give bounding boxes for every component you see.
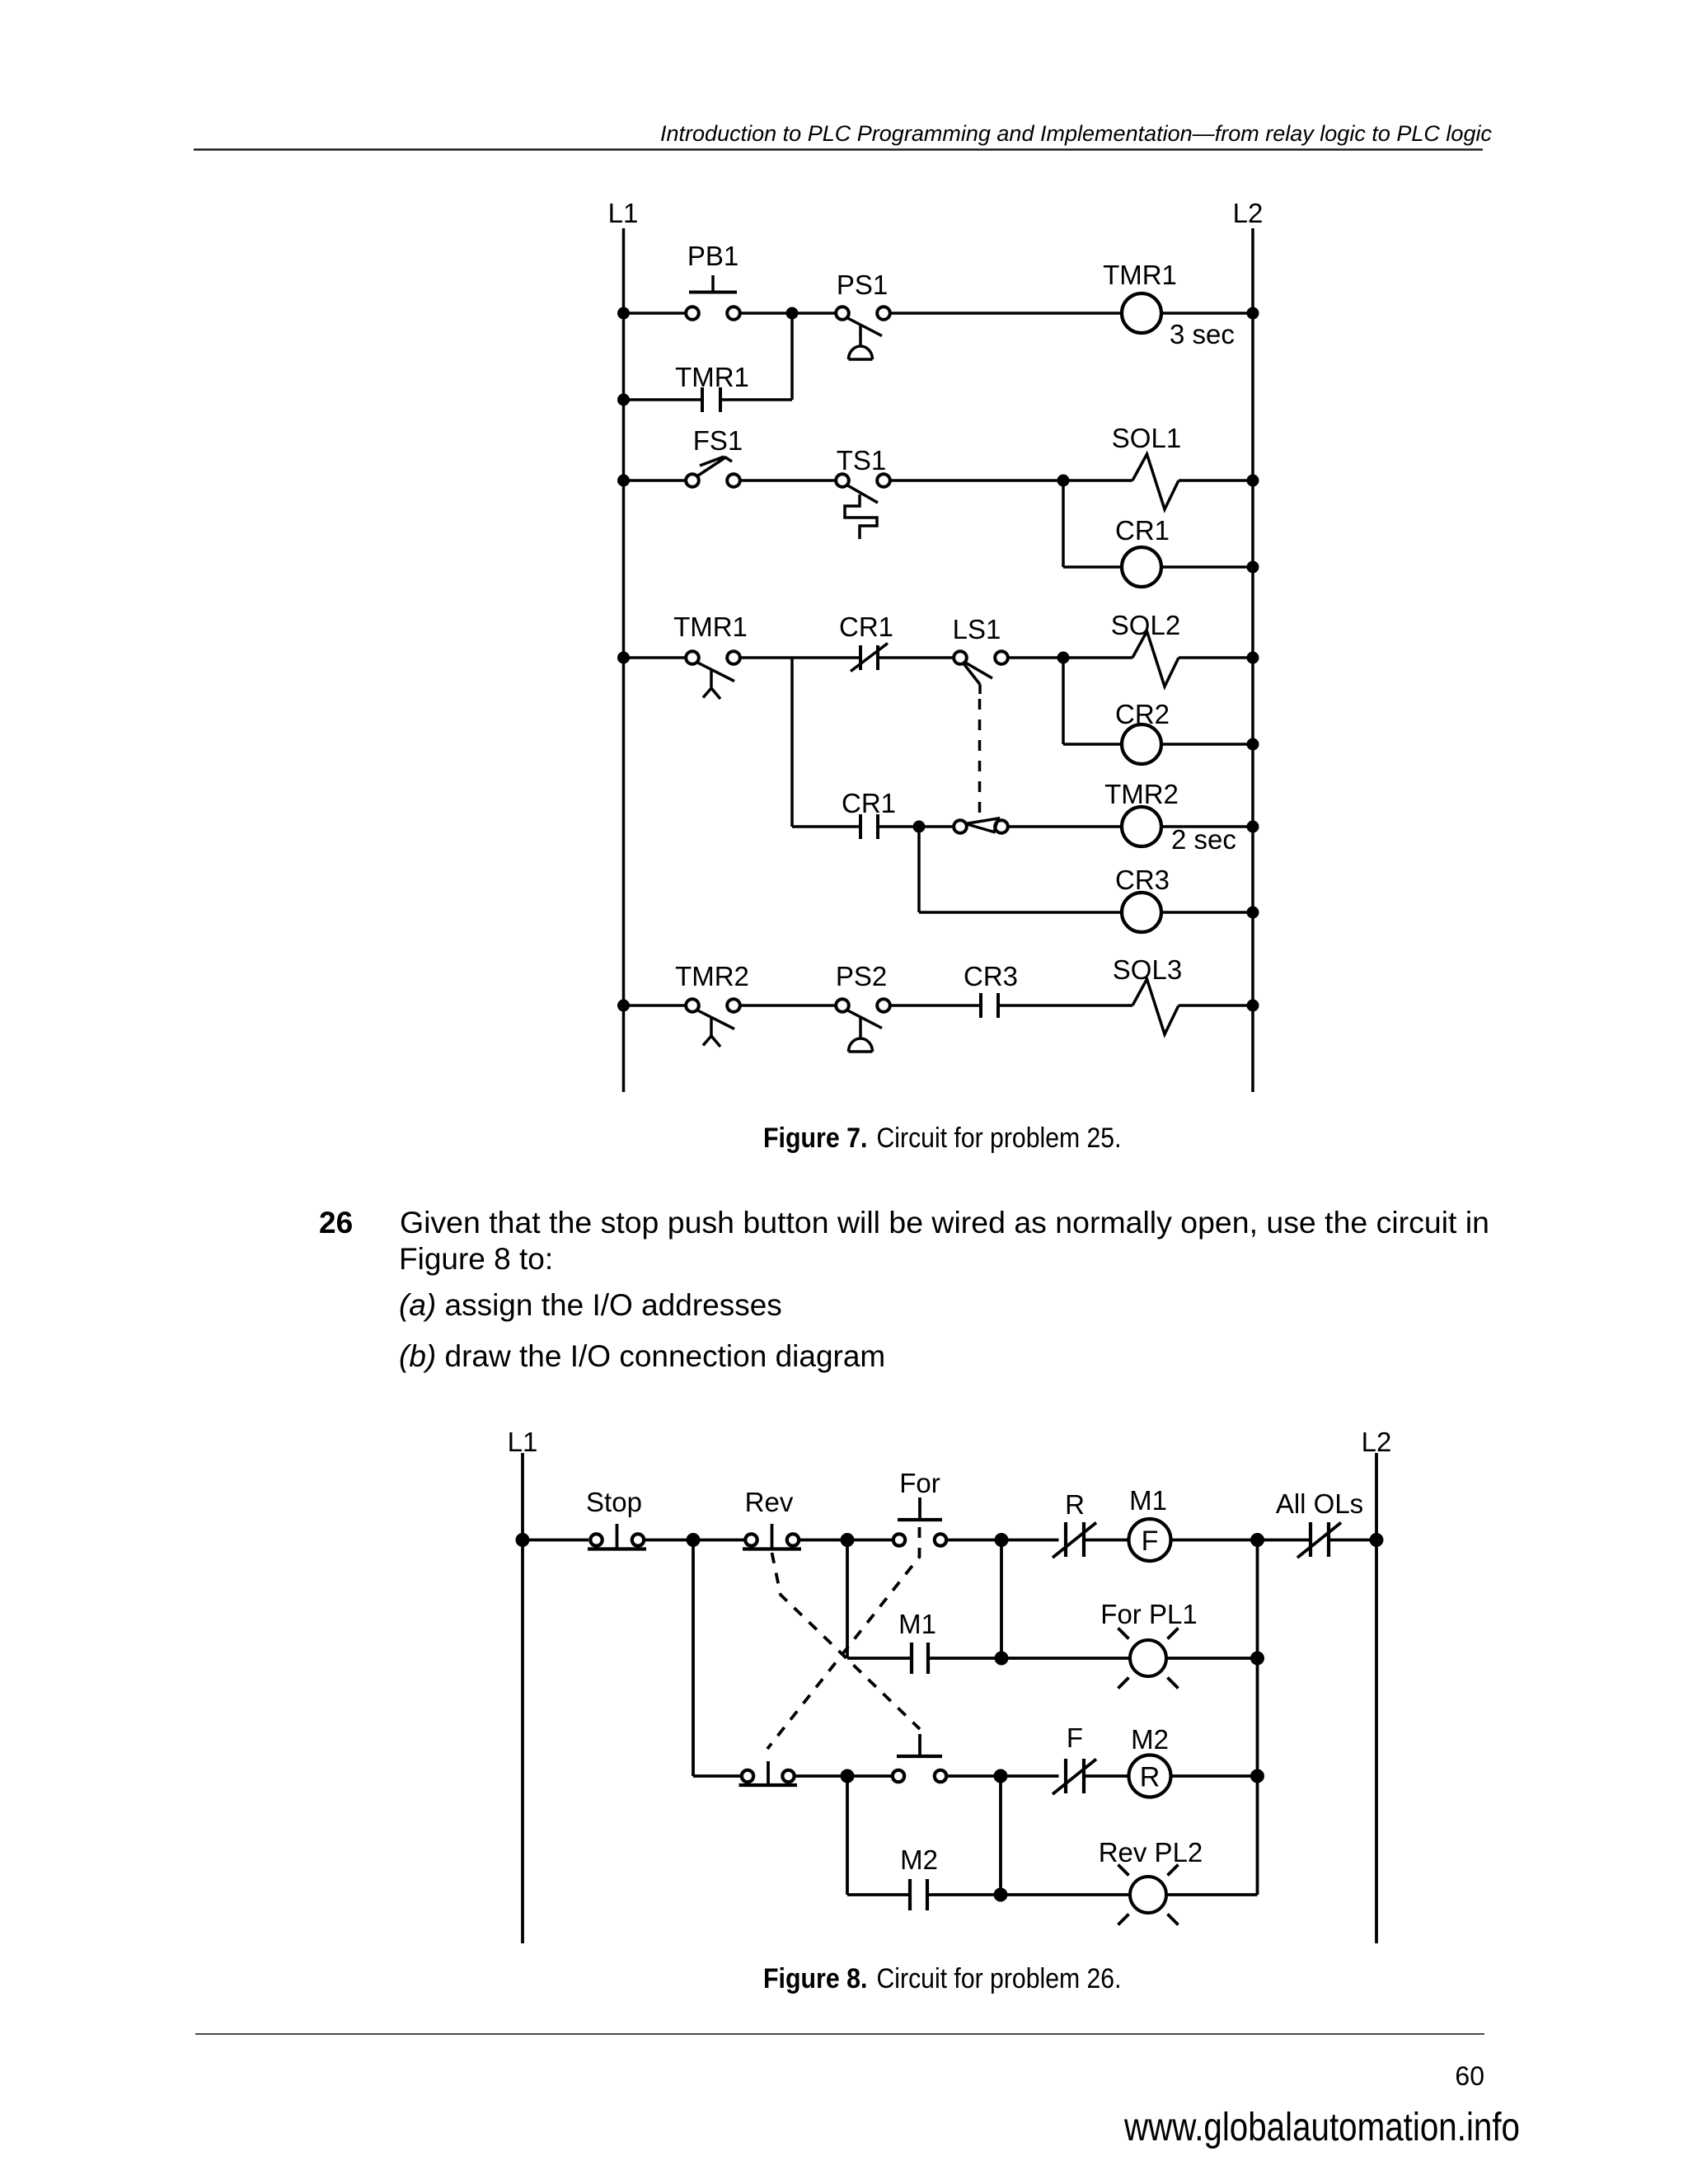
svg-text:PS2: PS2 — [836, 961, 887, 991]
junction rung5-L2 — [1247, 1000, 1259, 1012]
svg-text:60: 60 — [1455, 2061, 1484, 2091]
wire rung4 right — [1009, 825, 1123, 828]
svg-text:L2: L2 — [1362, 1427, 1392, 1457]
contact TMR1 NO — [675, 362, 749, 412]
svg-text:F: F — [1142, 1526, 1159, 1557]
wire CR1 branch vertical — [1062, 480, 1065, 567]
junction rung4-branch — [913, 821, 926, 833]
wire rung3 branch vertical — [790, 658, 794, 827]
wire rung2 left — [624, 479, 687, 482]
flow switch FS1 — [686, 425, 743, 487]
coil TMR2 — [1104, 779, 1236, 855]
wire rung4 left — [792, 825, 860, 828]
junction rung1-A — [687, 1533, 701, 1547]
svg-text:(b) draw the I/O connection di: (b) draw the I/O connection diagram — [399, 1339, 885, 1373]
junction rung5-L1 — [617, 1000, 630, 1012]
wire Rev mechanical link dashed — [772, 1553, 921, 1729]
svg-text:Rev: Rev — [745, 1487, 794, 1517]
junction rung1-L1 — [516, 1533, 530, 1547]
junction rung4-L2 — [1247, 821, 1259, 833]
svg-text:Circuit for problem 26.: Circuit for problem 26. — [877, 1963, 1122, 1994]
solenoid SOL3 — [1113, 954, 1182, 1034]
junction rung3-B — [841, 1769, 855, 1783]
junction rung1b-L1 — [617, 394, 630, 406]
contact M2 NO seal-in — [900, 1844, 938, 1910]
junction rung2-D — [1250, 1652, 1264, 1666]
wire CR3 branch vertical — [917, 827, 921, 912]
wire rung1 mid — [741, 312, 836, 315]
wire CR3 rung to L2 — [1161, 911, 1253, 914]
node L2 rail — [1375, 1453, 1378, 1943]
contact R NC interlock — [1053, 1489, 1096, 1558]
wire rung3 left — [624, 656, 686, 659]
wire rung5 mid2 — [891, 1004, 982, 1007]
junction rung1-C — [995, 1533, 1009, 1547]
solenoid SOL1 — [1112, 423, 1181, 509]
wire rung4 left — [847, 1893, 910, 1896]
wire CR1 rung left — [1063, 565, 1122, 569]
svg-text:M2: M2 — [900, 1844, 938, 1875]
contact All OLs NC — [1276, 1488, 1363, 1558]
svg-text:L2: L2 — [1233, 198, 1264, 228]
svg-text:Figure 7.: Figure 7. — [763, 1122, 868, 1154]
wire branch C2 vertical — [999, 1776, 1002, 1895]
wire seal branch vertical — [790, 313, 794, 400]
footer rule — [195, 2033, 1484, 2035]
wire rung5 right — [998, 1004, 1132, 1007]
junction rung1-B — [841, 1533, 855, 1547]
coil M1 forward — [1129, 1485, 1171, 1561]
junction rung1-L2 — [1370, 1533, 1384, 1547]
svg-text:L1: L1 — [508, 1427, 538, 1457]
svg-text:Figure 8.: Figure 8. — [763, 1963, 868, 1994]
wire rung1 right — [891, 312, 1123, 315]
junction rung2-L2 — [1247, 475, 1259, 487]
wire rung1 a — [645, 1539, 744, 1542]
wire rung2 right — [891, 479, 1133, 482]
pressure switch PS2 — [836, 961, 890, 1052]
wire rung4 mid — [927, 1893, 1130, 1896]
svg-text:2 sec: 2 sec — [1171, 824, 1236, 855]
wire CR2 rung to L2 — [1161, 743, 1253, 746]
svg-text:LS1: LS1 — [953, 614, 1001, 644]
wire rung2 left — [847, 1657, 912, 1660]
coil CR2 — [1115, 699, 1170, 764]
svg-text:TMR2: TMR2 — [675, 961, 749, 991]
wire CR3 rung left — [919, 911, 1122, 914]
svg-text:M2: M2 — [1131, 1724, 1169, 1755]
wire rung4 to L2 — [1161, 825, 1253, 828]
timed contact TMR2 NOTC — [675, 961, 749, 1047]
svg-text:TMR1: TMR1 — [673, 612, 748, 642]
svg-text:www.globalautomation.info: www.globalautomation.info — [1123, 2106, 1520, 2149]
svg-text:TMR1: TMR1 — [675, 362, 749, 392]
svg-text:For PL1: For PL1 — [1100, 1599, 1197, 1629]
wire branch D vertical — [1256, 1540, 1259, 1896]
wire rung3 c — [1084, 1774, 1129, 1778]
timed contact TMR1 NOTC — [673, 612, 748, 699]
svg-text:M1: M1 — [898, 1609, 936, 1639]
svg-text:L1: L1 — [608, 198, 639, 228]
wire For mechanical link dashed — [767, 1527, 920, 1749]
wire rung1b left — [624, 398, 703, 401]
svg-text:Rev PL2: Rev PL2 — [1099, 1837, 1203, 1868]
svg-text:3 sec: 3 sec — [1170, 319, 1235, 349]
junction rung1-L2 — [1247, 307, 1259, 320]
svg-text:R: R — [1140, 1762, 1160, 1793]
pilot light For PL1 — [1100, 1599, 1197, 1689]
wire rung3 b — [948, 1774, 1059, 1778]
junction rung3-C — [994, 1769, 1008, 1783]
contact M1 NO seal-in — [898, 1609, 936, 1674]
pilot light Rev PL2 — [1099, 1837, 1203, 1925]
svg-text:Circuit for problem 25.: Circuit for problem 25. — [877, 1122, 1122, 1154]
svg-text:TMR1: TMR1 — [1103, 260, 1177, 290]
coil CR3 — [1115, 865, 1170, 932]
pushbutton For second pole — [893, 1734, 946, 1782]
node L1 rail — [521, 1453, 524, 1943]
svg-text:PS1: PS1 — [837, 269, 888, 300]
pushbutton Stop NC — [586, 1487, 646, 1549]
junction rung3-D — [1250, 1769, 1264, 1783]
wire rung3 left — [693, 1774, 740, 1778]
pushbutton Rev NC — [743, 1487, 801, 1549]
junction rung4-C2 — [994, 1888, 1008, 1902]
wire rung1 d — [1084, 1539, 1129, 1542]
wire branch C vertical — [1000, 1540, 1003, 1659]
junction rung3-L1 — [617, 652, 630, 664]
svg-text:26: 26 — [319, 1206, 353, 1240]
svg-text:CR1: CR1 — [842, 788, 896, 818]
svg-text:SOL1: SOL1 — [1112, 423, 1181, 453]
svg-text:R: R — [1065, 1489, 1085, 1520]
wire rung5 to L2 — [1179, 1004, 1253, 1007]
svg-text:CR3: CR3 — [1115, 865, 1170, 895]
svg-text:CR1: CR1 — [1115, 515, 1170, 546]
svg-text:F: F — [1067, 1722, 1083, 1753]
wire rung2 mid — [741, 479, 836, 482]
wire rung3 mid — [741, 656, 861, 659]
svg-text:(a) assign the I/O addresses: (a) assign the I/O addresses — [399, 1288, 782, 1322]
solenoid SOL2 — [1111, 610, 1180, 687]
junction rung1-L1 — [617, 307, 630, 320]
svg-text:M1: M1 — [1129, 1485, 1167, 1516]
junction rung1-branch — [786, 307, 799, 320]
svg-text:PB1: PB1 — [687, 241, 738, 271]
junction rung2-C — [995, 1652, 1009, 1666]
wire rung1 b — [800, 1539, 893, 1542]
svg-text:CR3: CR3 — [964, 961, 1018, 991]
wire rung3 to D — [1171, 1774, 1258, 1778]
wire rung2 mid — [928, 1657, 1130, 1660]
contact CR1 NC — [839, 612, 893, 672]
svg-text:Stop: Stop — [586, 1487, 642, 1517]
wire branch B2 vertical — [846, 1776, 849, 1895]
wire branch B vertical — [846, 1540, 849, 1659]
wire rung1 to L2 — [1329, 1539, 1376, 1542]
svg-text:Figure 8 to:: Figure 8 to: — [399, 1242, 553, 1276]
wire rung1b right — [720, 398, 792, 401]
coil M2 reverse — [1129, 1724, 1171, 1797]
pushbutton For NO — [893, 1468, 946, 1546]
junction rung1-D — [1250, 1533, 1264, 1547]
wire rung4 to D — [1166, 1893, 1258, 1896]
temperature switch TS1 — [836, 445, 890, 539]
wire rung3 mid2 — [878, 656, 954, 659]
svg-text:TMR2: TMR2 — [1104, 779, 1179, 809]
wire rung5 left — [624, 1004, 686, 1007]
wire CR2 rung left — [1063, 743, 1122, 746]
wire LS1 link dashed — [978, 699, 982, 816]
svg-text:All OLs: All OLs — [1276, 1488, 1363, 1519]
junction rung3-L2 — [1247, 652, 1259, 664]
wire rung4 mid — [878, 825, 954, 828]
svg-text:FS1: FS1 — [693, 425, 743, 456]
wire rung1 to L2 — [1161, 312, 1253, 315]
contact F NC interlock — [1053, 1722, 1096, 1794]
svg-text:For: For — [899, 1468, 940, 1498]
wire rung2 to L2 — [1179, 479, 1253, 482]
wire CR2 branch vertical — [1062, 658, 1065, 744]
contact CR3 NO — [964, 961, 1018, 1018]
coil TMR1 — [1103, 260, 1235, 349]
wire rung3 to L2 — [1179, 656, 1253, 659]
wire rung3 right — [1009, 656, 1133, 659]
pressure switch PS1 — [836, 269, 890, 359]
limit switch LS1 — [953, 614, 1008, 694]
wire rung1 c — [948, 1539, 1059, 1542]
node L2 rail — [1251, 228, 1254, 1092]
junction CR2-L2 — [1247, 738, 1259, 751]
wire rung1 left — [624, 312, 686, 315]
wire rung5 mid — [741, 1004, 836, 1007]
junction rung3-sol2 — [1057, 652, 1070, 664]
wire rung3 a — [796, 1774, 892, 1778]
pushbutton PB1 — [686, 241, 740, 320]
node L1 rail — [622, 228, 626, 1092]
svg-text:SOL2: SOL2 — [1111, 610, 1180, 640]
wire branch A vertical — [692, 1540, 695, 1777]
contact CR1 NO — [842, 788, 896, 839]
junction CR3-L2 — [1247, 907, 1259, 919]
wire rung2 to D — [1166, 1657, 1258, 1660]
svg-text:CR1: CR1 — [839, 612, 893, 642]
svg-text:Introduction to PLC Programmin: Introduction to PLC Programming and Impl… — [660, 121, 1492, 146]
svg-text:Given that the stop push butto: Given that the stop push button will be … — [400, 1206, 1489, 1240]
limit switch LS1 second pole — [954, 818, 1008, 833]
pushbutton Rev second pole — [739, 1761, 798, 1785]
svg-text:CR2: CR2 — [1115, 699, 1170, 729]
wire rung1 left — [523, 1539, 588, 1542]
junction rung2-L1 — [617, 475, 630, 487]
svg-text:TS1: TS1 — [837, 445, 887, 476]
wire rung1 e — [1171, 1539, 1311, 1542]
wire CR1 rung to L2 — [1161, 565, 1253, 569]
junction rung2-sol1 — [1057, 475, 1070, 487]
coil CR1 — [1115, 515, 1170, 587]
svg-text:SOL3: SOL3 — [1113, 954, 1182, 985]
header rule — [194, 148, 1483, 151]
junction CR1-L2 — [1247, 561, 1259, 574]
